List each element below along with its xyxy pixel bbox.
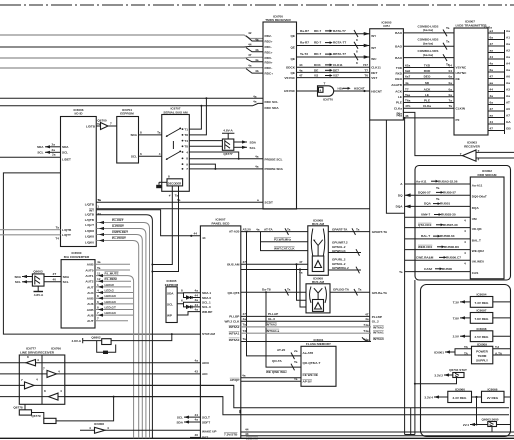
transistor Q6704 stat (414, 368, 467, 385)
wire INT6A0 (241, 337, 384, 341)
svg-text:STAT.AM: STAT.AM (202, 332, 215, 336)
svg-text:A2: A2 (506, 49, 510, 53)
wire EEPROM SCL to panel (177, 298, 200, 308)
bus BAL to DDR (405, 234, 471, 244)
svg-text:44: 44 (195, 303, 199, 307)
svg-text:44: 44 (195, 293, 199, 297)
svg-text:WE.QK2: WE.QK2 (472, 249, 484, 253)
ground under Q6003 (34, 286, 44, 297)
svg-text:SCL: SCL (62, 151, 68, 155)
wire L1 SCDT (96, 198, 263, 202)
page border bottom (0, 437, 514, 439)
svg-text:CAS: CAS (472, 271, 479, 275)
IC6707 serial bus amp (162, 107, 190, 192)
svg-text:L/QK0: L/QK0 (85, 241, 94, 245)
bus TMDS RA to CPU (297, 29, 370, 42)
svg-text:A.TA: A.TA (495, 351, 503, 355)
wire EEPROM SDA to panel (177, 288, 200, 299)
svg-text:47: 47 (490, 107, 494, 111)
svg-text:4a: 4a (255, 165, 259, 169)
wire TMDS input RD2 pair (0, 31, 263, 42)
svg-text:AU4: AU4 (87, 291, 93, 295)
svg-text:AT: AT (506, 101, 510, 105)
svg-text:A0: A0 (506, 107, 510, 111)
wire panel Q to flash (266, 292, 301, 367)
wire panel AT to flash (247, 232, 302, 356)
svg-text:LED.G0: LED.G0 (105, 294, 116, 298)
svg-text:7: 7 (21, 378, 23, 382)
svg-text:G.PROT: G.PROT (112, 224, 124, 228)
svg-text:DCK: DCK (314, 63, 321, 67)
wire Q6777 SCL out (234, 146, 256, 150)
svg-text:7a: 7a (449, 99, 453, 103)
wire driver out C (65, 384, 234, 386)
svg-text:T6a: T6a (405, 99, 411, 103)
wire BUS.AM b (241, 268, 308, 274)
IC6005 EEPROM (165, 279, 179, 322)
svg-text:Ta-T3: Ta-T3 (300, 52, 308, 56)
wire SDFT (176, 418, 200, 425)
wire TMDS input RD0 pair (0, 53, 263, 62)
wire SCL into Q6003 (15, 280, 33, 284)
svg-text:P6a: P6a (396, 114, 402, 118)
svg-text:GPWRRA.2: GPWRRA.2 (332, 266, 349, 270)
svg-text:2a: 2a (294, 349, 298, 353)
wire probe sda (189, 165, 263, 169)
svg-text:HSCNT: HSCNT (354, 86, 365, 90)
wire ODCK CLK11 (297, 63, 370, 67)
svg-text:DECODER: DECODER (168, 182, 181, 186)
svg-text:8: 8 (97, 294, 99, 298)
svg-text:6: 6 (181, 299, 183, 303)
wire L4 down long (96, 215, 152, 439)
svg-text:4a: 4a (253, 99, 257, 103)
svg-text:0a: 0a (449, 87, 453, 91)
wire LED.G0 (95, 294, 133, 300)
transistor Q6777 (222, 129, 234, 156)
svg-text:6a7: 6a7 (405, 75, 410, 79)
svg-text:L/DTB: L/DTB (86, 124, 96, 128)
svg-text:44: 44 (195, 413, 199, 417)
svg-text:RATA-T7: RATA-T7 (333, 29, 346, 33)
transistor Q6778 (13, 404, 43, 418)
svg-text:AUT: AUT (87, 285, 93, 289)
svg-text:GB: GB (506, 127, 511, 131)
svg-text:2a: 2a (52, 142, 56, 146)
svg-text:44: 44 (202, 236, 206, 240)
svg-text:4: 4 (60, 389, 62, 393)
svg-text:Aa: Aa (506, 81, 510, 85)
wire decoder output A (152, 186, 172, 265)
svg-text:SCLT: SCLT (202, 415, 210, 419)
svg-text:aa: aa (490, 81, 494, 85)
line driver receiver IC6777 IC6766 (19, 346, 65, 404)
svg-text:#: # (169, 193, 171, 197)
svg-text:3.3V.2: 3.3V.2 (434, 373, 443, 377)
svg-text:Ta: Ta (446, 26, 450, 30)
svg-text:42: 42 (248, 31, 252, 35)
svg-text:4: 4 (37, 358, 39, 362)
svg-text:RUB0-57: RUB0-57 (443, 191, 456, 195)
AND gate IC6770 (318, 81, 334, 101)
transistor Q6779 (31, 396, 114, 424)
svg-text:LVDS TRANSMITTER: LVDS TRANSMITTER (455, 23, 487, 27)
svg-text:PANEL BCO: PANEL BCO (212, 222, 231, 226)
svg-text:RD0+: RD0+ (265, 60, 273, 64)
svg-text:46: 46 (405, 114, 409, 118)
svg-text:Q6003: Q6003 (33, 270, 43, 274)
svg-text:7: 7 (186, 167, 188, 171)
buffer receiver D (0, 389, 65, 400)
wire CMPS.DET (96, 230, 142, 438)
svg-text:LED.G0: LED.G0 (105, 311, 116, 315)
svg-text:A7: A7 (506, 114, 510, 118)
svg-text:SCL.0: SCL.0 (202, 305, 211, 309)
svg-text:TXD: TXD (424, 64, 431, 68)
svg-text:INT6A2: INT6A2 (266, 323, 277, 327)
svg-text:LINE DRIVE/RECEIVER: LINE DRIVE/RECEIVER (20, 350, 55, 354)
svg-text:Aa: Aa (506, 29, 510, 33)
wire DEO (403, 75, 454, 79)
svg-text:T4a: T4a (363, 329, 369, 333)
buffer driver C (0, 377, 65, 389)
wire GPART out (328, 227, 388, 235)
svg-text:4: 4 (58, 369, 60, 373)
wire LED.G4 (95, 311, 133, 317)
svg-text:ACK: ACK (395, 90, 402, 94)
svg-text:7: 7 (97, 317, 99, 321)
svg-text:P2.WR.MHz: P2.WR.MHz (274, 237, 291, 241)
svg-text:UK.QK: UK.QK (472, 227, 483, 231)
svg-text:SCL: SCL (63, 280, 69, 284)
svg-text:43: 43 (195, 370, 199, 374)
wire DDC SCL to bus amp T8 (189, 98, 206, 135)
wire SD (403, 81, 454, 85)
svg-text:WE QWE WHz: WE QWE WHz (266, 370, 287, 374)
wire panel Q bus (241, 288, 306, 296)
IC6704 EEPROM (117, 108, 139, 163)
svg-text:Ta: Ta (436, 197, 440, 201)
svg-text:8: 8 (181, 288, 183, 292)
wire G.PROT (96, 224, 146, 438)
svg-text:RXD: RXD (424, 69, 431, 73)
IC6060 3.3V reg (424, 388, 471, 403)
IC6001 flash memory (301, 338, 336, 386)
svg-text:4a: 4a (195, 289, 199, 293)
svg-text:CMPS.DET: CMPS.DET (112, 230, 128, 234)
wire WHT CAT CLK (261, 242, 308, 251)
svg-text:HS#: HS# (338, 86, 344, 90)
svg-text:RD2-: RD2- (265, 34, 272, 38)
svg-text:SCL: SCL (177, 415, 183, 419)
svg-text:DDC SCL: DDC SCL (265, 100, 279, 104)
svg-text:T3: T3 (97, 212, 101, 216)
svg-text:4a: 4a (255, 38, 259, 42)
svg-text:QE: QE (291, 34, 295, 38)
wire vertical right low (405, 280, 415, 435)
svg-text:A4: A4 (506, 62, 510, 66)
svg-text:DQ: DQ (398, 193, 403, 197)
svg-text:Q6779: Q6779 (31, 414, 41, 418)
wire PLLBP (241, 312, 382, 319)
svg-text:RD-7: RD-7 (314, 41, 321, 45)
svg-text:AUB: AUB (87, 308, 94, 312)
svg-text:HSCNT: HSCNT (371, 89, 382, 93)
buffer IC6008 (80, 422, 200, 433)
svg-text:A1: A1 (506, 36, 510, 40)
svg-text:RD-7: RD-7 (314, 52, 321, 56)
svg-text:CPU: CPU (383, 24, 390, 28)
svg-text:4: 4 (464, 262, 466, 266)
svg-text:INT6A1.a: INT6A1.a (266, 329, 280, 333)
svg-text:LE: LE (398, 95, 402, 99)
svg-text:IC6770: IC6770 (323, 98, 333, 102)
svg-text:9: 9 (186, 162, 188, 166)
svg-text:Taa: Taa (405, 93, 410, 97)
svg-text:RGTA-T7: RGTA-T7 (333, 41, 346, 45)
svg-text:CLKIN: CLKIN (456, 106, 466, 110)
svg-text:4: 4 (89, 426, 91, 430)
svg-text:WP: WP (167, 314, 172, 318)
svg-text:RD1-: RD1- (265, 45, 272, 49)
svg-text:47: 47 (299, 74, 303, 78)
svg-text:2a: 2a (52, 148, 56, 152)
wire VS7 (297, 74, 370, 78)
svg-text:SDA: SDA (176, 420, 183, 424)
svg-text:Ta: Ta (98, 198, 102, 202)
svg-text:L/QTB: L/QTB (85, 213, 95, 217)
svg-text:QE: QE (291, 46, 295, 50)
svg-text:44: 44 (299, 63, 303, 67)
wire L/DET (0, 153, 61, 158)
svg-text:BUS.AM: BUS.AM (227, 263, 240, 267)
svg-text:8: 8 (44, 389, 46, 393)
svg-text:4b: 4b (255, 48, 259, 52)
svg-text:QO-QT8: QO-QT8 (228, 291, 240, 295)
wire staircase A (65, 385, 509, 407)
svg-text:4a: 4a (299, 68, 303, 72)
svg-text:4.8V-A: 4.8V-A (72, 339, 82, 343)
svg-text:ACK: ACK (424, 87, 431, 91)
wire GP group 1 (328, 240, 361, 255)
svg-text:8: 8 (27, 355, 29, 359)
svg-text:11: 11 (97, 272, 101, 276)
svg-text:WU: WU (371, 57, 377, 61)
svg-text:04: 04 (449, 69, 453, 73)
svg-text:2V.4: 2V.4 (463, 423, 469, 427)
svg-text:DQA: DQA (396, 205, 404, 209)
CPU IC6005 (370, 20, 404, 120)
connector pins right of LVDS (484, 26, 511, 135)
svg-text:Ta: Ta (97, 266, 101, 270)
svg-text:P.L.MUTE: P.L.MUTE (105, 272, 119, 276)
svg-text:Aa-AT8: Aa-AT8 (303, 351, 314, 355)
svg-text:SCL: SCL (37, 151, 43, 155)
wire LED.G (95, 289, 133, 295)
svg-text:4T: 4T (53, 272, 57, 276)
bus amp IC6008 upper (308, 218, 329, 275)
wire RXD (403, 69, 454, 73)
wire receiver to CPU PLE (403, 112, 462, 155)
bus CAS to DDR (399, 267, 470, 274)
wire P0 (396, 114, 454, 435)
pullup 4.8V-A Q6802 (72, 333, 173, 354)
svg-text:AP BY: AP BY (303, 379, 313, 383)
svg-text:aa: aa (490, 114, 494, 118)
IC6006 I/O ID (61, 108, 102, 247)
svg-text:BAO: BAO (395, 56, 402, 60)
svg-text:Ra-R7: Ra-R7 (300, 41, 309, 45)
svg-text:SDA: SDA (167, 292, 174, 296)
svg-text:Ta: Ta (97, 122, 101, 126)
svg-text:4a: 4a (243, 317, 247, 321)
svg-text:HSYNC: HSYNC (456, 71, 468, 75)
svg-text:P.L.PROT: P.L.PROT (112, 236, 126, 240)
svg-text:47: 47 (299, 260, 303, 264)
svg-text:RDC+: RDC+ (265, 72, 274, 76)
bus COMBO-LVDS 3 (403, 49, 454, 67)
svg-text:RUB06.63: RUB06.63 (440, 234, 455, 238)
svg-text:8: 8 (97, 305, 99, 309)
wire AUB row1 (95, 260, 130, 264)
svg-text:AUT1: AUT1 (85, 274, 93, 278)
svg-text:Q6802: Q6802 (91, 335, 101, 339)
svg-text:4: 4 (464, 251, 466, 255)
svg-text:4: 4 (186, 150, 188, 154)
bus TMDS RG to CPU (297, 41, 370, 54)
svg-text:DE: DE (314, 68, 318, 72)
svg-text:(ba-ba): (ba-ba) (423, 28, 433, 32)
IC6500 B/A converter (61, 251, 95, 328)
svg-text:WR.2 CLK: WR.2 CLK (224, 320, 240, 324)
IC6097 7.8V reg (453, 309, 511, 324)
wire Q6003 to converter SCL (44, 278, 61, 282)
svg-text:PROBE SCL: PROBE SCL (265, 157, 283, 161)
svg-text:62a: 62a (405, 64, 410, 68)
svg-text:AUT: AUT (87, 319, 93, 323)
svg-text:44: 44 (248, 42, 252, 46)
svg-text:RD-7: RD-7 (314, 29, 321, 33)
svg-text:Ta: Ta (358, 288, 362, 292)
wire DE7 (297, 68, 370, 72)
svg-text:4a: 4a (195, 298, 199, 302)
svg-text:2.5V REG: 2.5V REG (475, 335, 490, 339)
svg-text:4: 4 (320, 89, 322, 93)
svg-text:SD: SD (425, 81, 430, 85)
bus RAS to DDR (405, 256, 471, 266)
svg-text:IC6001: IC6001 (434, 350, 444, 354)
svg-text:SERIAL BUS AM: SERIAL BUS AM (163, 110, 188, 114)
wire amp pin9 bend (189, 164, 216, 170)
svg-text:LED.G0: LED.G0 (105, 300, 116, 304)
svg-text:44: 44 (194, 232, 198, 236)
svg-text:4: 4 (36, 377, 38, 381)
svg-text:4a: 4a (242, 374, 246, 378)
svg-text:RBTA-T7: RBTA-T7 (333, 52, 346, 56)
bus DQA to DDR (396, 202, 471, 209)
svg-text:AP/QP: AP/QP (230, 378, 240, 382)
svg-text:SUPPLY: SUPPLY (476, 359, 489, 363)
wire GP group 2 (328, 257, 361, 273)
svg-text:LED.R: LED.R (105, 283, 115, 287)
buffer driver B (0, 366, 65, 377)
buffer receiver A (0, 355, 65, 366)
svg-text:Ta: Ta (56, 225, 60, 229)
svg-text:T7: T7 (364, 68, 368, 72)
junction break panel edge (239, 410, 241, 413)
svg-text:LED.AM: LED.AM (246, 436, 258, 440)
svg-text:T1: T1 (184, 127, 188, 131)
svg-text:T3: T3 (243, 329, 247, 333)
svg-text:CLKa: CLKa (394, 106, 402, 110)
svg-text:4: 4 (464, 219, 466, 223)
svg-text:T.2: T.2 (495, 345, 499, 349)
svg-text:FLASH MEMORY: FLASH MEMORY (306, 342, 332, 346)
svg-text:SDFT: SDFT (202, 420, 210, 424)
svg-text:AU6: AU6 (87, 302, 93, 306)
svg-text:CWE.RA&M: CWE.RA&M (416, 256, 434, 260)
svg-text:Ta: Ta (287, 227, 291, 231)
svg-text:L/QTT: L/QTT (62, 233, 71, 237)
svg-text:L/QK8: L/QK8 (85, 229, 94, 233)
svg-text:A3: A3 (506, 88, 510, 92)
svg-text:EEPROM: EEPROM (120, 112, 134, 116)
svg-text:PLLBP: PLLBP (372, 315, 382, 319)
svg-text:SCL: SCL (250, 146, 256, 150)
svg-text:DE: DE (456, 77, 460, 81)
IC6007 panel BCO (200, 218, 240, 440)
svg-text:6a: 6a (490, 68, 494, 72)
svg-text:SDA.1: SDA.1 (202, 291, 211, 295)
svg-text:43: 43 (245, 432, 249, 436)
svg-text:7: 7 (97, 311, 99, 315)
svg-text:TERM: TERM (478, 354, 487, 358)
svg-text:QTA.CK0: QTA.CK0 (418, 223, 432, 227)
svg-text:Ta: Ta (294, 377, 298, 381)
svg-text:Ta: Ta (356, 227, 360, 231)
svg-text:4a: 4a (195, 358, 199, 362)
svg-text:4: 4 (464, 240, 466, 244)
svg-text:Aa: Aa (506, 94, 510, 98)
svg-text:Q6704 STAT: Q6704 STAT (449, 368, 467, 372)
svg-text:7: 7 (110, 121, 112, 125)
svg-text:CAS#: CAS# (424, 267, 433, 271)
wire L3 to panel pin44 (96, 210, 200, 237)
wire EEPROM SCL to amp (139, 152, 162, 156)
svg-text:0a: 0a (449, 75, 453, 79)
svg-text:GPURL.2: GPURL.2 (332, 257, 346, 261)
svg-text:INT6A2: INT6A2 (229, 325, 240, 329)
svg-text:Ta: Ta (287, 288, 291, 292)
svg-text:SDA: SDA (37, 145, 44, 149)
svg-text:47: 47 (490, 127, 494, 131)
wire driver out B to panel AIO (65, 373, 201, 375)
svg-text:AUT2: AUT2 (85, 280, 93, 284)
svg-text:7: 7 (43, 366, 45, 370)
svg-text:Ta: Ta (177, 198, 181, 202)
wire EEPROM WP to panel (177, 307, 200, 315)
wire amp2 ctl 1 (297, 264, 307, 300)
svg-text:SDA: SDA (62, 145, 69, 149)
svg-text:4T: 4T (365, 312, 369, 316)
bus WE to DDR (405, 245, 471, 255)
svg-text:4a: 4a (195, 418, 199, 422)
svg-text:SCDT: SCDT (265, 201, 274, 205)
svg-text:Ta: Ta (243, 337, 247, 341)
svg-text:SDA.0: SDA.0 (202, 296, 211, 300)
IC6002 DDR SDRAM (470, 169, 504, 279)
svg-text:T.3V: T.3V (453, 300, 460, 304)
